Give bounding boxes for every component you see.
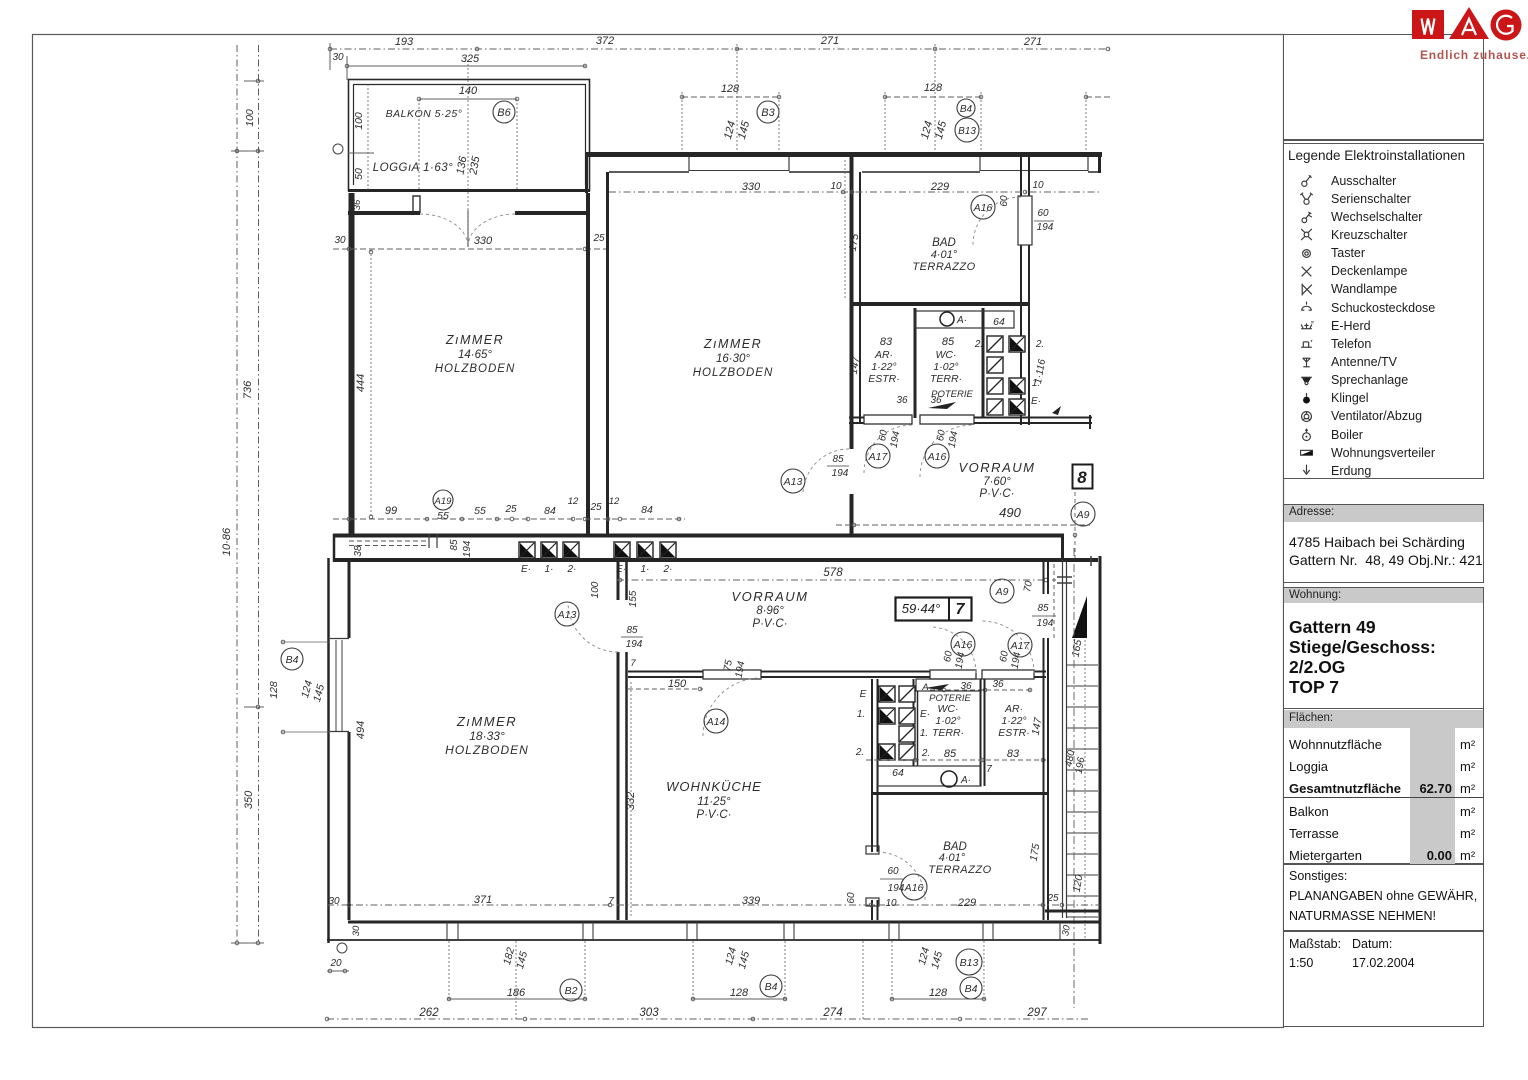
svg-text:229: 229 <box>930 181 949 193</box>
svg-text:150: 150 <box>668 678 687 690</box>
legend symbol Schuckosteckdose <box>1299 300 1314 315</box>
corner to stairwell <box>1061 534 1064 562</box>
svg-text:444: 444 <box>355 374 367 392</box>
Kueche / WC-Bad divider wall <box>871 679 873 852</box>
legend symbol Antenne/TV <box>1299 355 1314 370</box>
svg-text:59·44°: 59·44° <box>902 601 940 616</box>
legend symbol Sprechanlage <box>1299 373 1314 388</box>
circled label A17 upper <box>866 444 890 468</box>
svg-text:7: 7 <box>630 658 636 669</box>
svg-text:64: 64 <box>892 767 904 779</box>
circled label B4 bottom-b <box>960 977 982 999</box>
sonstiges box <box>1283 864 1484 931</box>
flaechen rows <box>1289 737 1382 752</box>
stair dim dotted line <box>1084 640 1086 940</box>
svg-text:494: 494 <box>355 721 367 739</box>
svg-text:100: 100 <box>353 112 365 130</box>
svg-text:12: 12 <box>568 496 579 507</box>
legend text Ausschalter <box>1331 174 1396 188</box>
svg-text:145: 145 <box>736 119 753 141</box>
balcony double-door swing arcs <box>420 214 515 247</box>
svg-text:B6: B6 <box>497 107 511 119</box>
electrical distribution squares upper column 2 <box>1009 336 1025 352</box>
top exterior wall <box>585 152 1102 157</box>
svg-text:194: 194 <box>1010 651 1024 670</box>
legend symbol Klingel <box>1299 391 1314 406</box>
electrical meter squares row group 1 <box>519 542 535 558</box>
lower apartment right wall <box>1043 558 1045 594</box>
tick y151 <box>231 150 264 152</box>
svg-text:WC·: WC· <box>936 349 957 361</box>
legend text Schuckosteckdose <box>1331 301 1435 315</box>
svg-text:120: 120 <box>1071 874 1086 893</box>
logo W red square <box>1412 10 1444 39</box>
svg-text:297: 297 <box>1026 1007 1047 1019</box>
svg-text:LOGGıA 1·63°: LOGGıA 1·63° <box>373 162 453 174</box>
svg-text:4·01°: 4·01° <box>931 249 958 261</box>
svg-text:70: 70 <box>1022 580 1035 593</box>
logo G red circle <box>1491 10 1522 41</box>
svg-text:165: 165 <box>1070 639 1085 658</box>
entrance door filled triangle <box>1072 596 1087 638</box>
svg-text:7: 7 <box>608 896 614 907</box>
lower apartment top wall <box>333 558 1064 562</box>
svg-text:7·60°: 7·60° <box>983 476 1011 488</box>
lower apartment bottom exterior wall <box>348 921 1100 924</box>
svg-text:TERRAZZO: TERRAZZO <box>912 261 975 273</box>
logo A red triangle <box>1449 7 1489 39</box>
circle mark bottom-left <box>337 943 347 953</box>
svg-text:194: 194 <box>888 883 905 894</box>
svg-text:AR·: AR· <box>1004 703 1023 715</box>
svg-text:Endlich zuhause.: Endlich zuhause. <box>1420 48 1528 62</box>
svg-text:4·01°: 4·01° <box>939 852 966 864</box>
legend text Erdung <box>1331 464 1371 478</box>
svg-text:E·: E· <box>920 709 930 720</box>
dimension line 578 <box>617 579 1056 581</box>
center line balcony door <box>467 64 469 246</box>
balcony-loggia outer walls <box>349 80 590 191</box>
svg-text:128: 128 <box>924 82 943 94</box>
svg-text:A16: A16 <box>927 451 947 463</box>
svg-text:A9: A9 <box>1076 509 1090 521</box>
svg-text:194: 194 <box>734 660 748 679</box>
window in left wall <box>330 638 349 640</box>
svg-text:194: 194 <box>1037 618 1054 629</box>
dimension stub top right <box>1086 96 1110 98</box>
svg-text:30: 30 <box>334 235 346 246</box>
svg-text:A13: A13 <box>557 609 577 621</box>
svg-text:194: 194 <box>1037 222 1054 233</box>
svg-text:ZıMMER: ZıMMER <box>445 333 504 347</box>
svg-text:E·: E· <box>1031 396 1041 407</box>
svg-text:194: 194 <box>947 430 961 449</box>
svg-text:186: 186 <box>507 987 526 999</box>
door arc A14 (into Wohnkueche) <box>703 678 761 736</box>
svg-text:193: 193 <box>395 36 414 48</box>
svg-text:60: 60 <box>999 195 1010 207</box>
svg-text:194: 194 <box>626 639 643 650</box>
circled label A9 left <box>990 579 1014 603</box>
svg-text:1·22°: 1·22° <box>871 361 896 373</box>
extension line x368 <box>367 84 369 191</box>
svg-text:11·25°: 11·25° <box>697 796 731 808</box>
legend symbol Serienschalter <box>1299 191 1314 206</box>
Zimmer1 top wall with balcony door opening <box>348 211 420 215</box>
svg-text:60: 60 <box>1037 208 1049 219</box>
svg-text:E: E <box>860 689 867 700</box>
svg-text:A·: A· <box>960 775 971 786</box>
extension line x419 <box>418 99 420 190</box>
svg-text:1·22°: 1·22° <box>1001 715 1026 727</box>
svg-text:2.: 2. <box>921 748 930 759</box>
legend symbol E-Herd <box>1299 318 1314 333</box>
svg-text:A17: A17 <box>1010 640 1031 652</box>
svg-text:10: 10 <box>1032 180 1044 191</box>
svg-text:325: 325 <box>461 53 480 65</box>
svg-text:8·96°: 8·96° <box>756 605 784 617</box>
stair treads <box>1067 664 1098 666</box>
circled label A16 (Bad door) <box>971 195 995 219</box>
left exterior wall (upper apartment) <box>349 193 355 537</box>
Bad door swing arc <box>973 197 1021 245</box>
svg-text:147: 147 <box>1030 716 1045 736</box>
svg-text:12: 12 <box>609 496 620 507</box>
window bay 1 in top wall <box>688 157 690 171</box>
legend text E-Herd <box>1331 319 1371 333</box>
extension line x516 <box>515 941 517 1020</box>
svg-text:60: 60 <box>846 892 857 904</box>
svg-text:TERR·: TERR· <box>932 727 964 739</box>
svg-text:83: 83 <box>880 336 893 348</box>
extension line x863 <box>862 941 864 1020</box>
wall between Zimmer1 and Zimmer2 (right line) <box>606 172 609 537</box>
svg-text:HOLZBODEN: HOLZBODEN <box>445 743 529 757</box>
svg-text:60: 60 <box>942 650 955 663</box>
svg-text:85: 85 <box>626 625 638 636</box>
dim line 128 bottom-a <box>691 998 787 1000</box>
wohnung bold text <box>1289 617 1436 697</box>
dimension line 330/229 below top wall <box>609 191 1100 193</box>
stairwell right wall <box>1099 556 1102 944</box>
extension lines bottom windows <box>448 941 450 1000</box>
circled label A16 upper <box>925 444 949 468</box>
svg-text:B2: B2 <box>565 985 578 997</box>
dimension line 128 right window <box>885 96 981 98</box>
entrance niche dashed line <box>1053 564 1055 640</box>
upper right exterior wall with Bad door opening <box>1020 157 1022 196</box>
svg-text:155: 155 <box>628 590 639 607</box>
circled label A16 mid <box>951 632 975 656</box>
svg-text:AR·: AR· <box>874 349 893 361</box>
svg-text:30: 30 <box>351 925 362 936</box>
legend text Wandlampe <box>1331 282 1397 296</box>
AR/WC divider wall upper <box>914 308 917 418</box>
svg-text:194: 194 <box>832 468 849 479</box>
legend symbol Wohnungsverteiler <box>1299 445 1314 460</box>
circled label B13 top <box>955 118 979 142</box>
svg-text:P·V·C·: P·V·C· <box>696 809 731 821</box>
WAG logo <box>1398 0 1528 70</box>
top wall inner line segments <box>609 171 689 173</box>
loggia left step bracket <box>413 196 420 213</box>
top wall right end corner <box>1098 152 1101 173</box>
arrow up near wall end <box>1052 406 1061 415</box>
left dimension line inner <box>258 45 260 943</box>
legend text Sprechanlage <box>1331 373 1408 387</box>
door center line <box>467 210 469 247</box>
svg-text:BAD: BAD <box>932 237 956 249</box>
svg-text:1.: 1. <box>920 728 928 739</box>
svg-text:371: 371 <box>474 894 492 906</box>
adresse box <box>1283 504 1484 583</box>
flaechen divider line <box>1283 797 1484 798</box>
unit number box 8 <box>1073 465 1093 489</box>
svg-text:10·86: 10·86 <box>221 527 233 556</box>
svg-text:145: 145 <box>933 119 950 141</box>
door jamb in bottom wall 2 <box>436 534 438 548</box>
svg-text:2.: 2. <box>855 747 864 758</box>
svg-text:P·V·C·: P·V·C· <box>752 618 787 630</box>
circled label A9 right <box>1071 502 1095 526</box>
legend text Klingel <box>1331 391 1369 405</box>
svg-text:ESTR·: ESTR· <box>868 373 900 385</box>
svg-text:145: 145 <box>514 950 530 970</box>
legend title <box>1288 148 1465 163</box>
extension line 332 <box>630 682 632 918</box>
legend symbol Deckenlampe <box>1299 264 1314 279</box>
dimension line 140 (balcony window) <box>419 98 517 100</box>
svg-text:A19: A19 <box>434 496 453 507</box>
svg-text:350: 350 <box>243 790 255 809</box>
stair top bracket marks <box>1057 576 1072 578</box>
legend symbol Wandlampe <box>1299 282 1314 297</box>
svg-text:B13: B13 <box>960 957 979 969</box>
svg-text:1·: 1· <box>641 564 650 575</box>
stairwell bottom wall <box>1045 910 1100 913</box>
circled label B3 <box>757 101 779 123</box>
extension line x935 <box>934 44 936 153</box>
legend text Taster <box>1331 246 1365 260</box>
svg-text:8: 8 <box>1077 468 1087 487</box>
svg-text:85: 85 <box>1037 603 1049 614</box>
svg-text:36: 36 <box>992 679 1004 690</box>
extension line x1086 <box>1085 92 1087 153</box>
svg-text:ESTR·: ESTR· <box>998 727 1030 739</box>
svg-text:736: 736 <box>242 380 254 399</box>
Zimmer3 right wall / Vorraum left wall <box>617 562 620 600</box>
window bay 2 in top wall <box>979 157 981 171</box>
masstab box <box>1283 931 1484 1027</box>
svg-text:m: m <box>1311 320 1314 325</box>
apartment number box 59.44 / 7 <box>896 597 972 621</box>
svg-text:A17: A17 <box>868 451 889 463</box>
svg-text:271: 271 <box>820 35 839 47</box>
dashed wall stub left of bottom wall <box>349 540 428 542</box>
door arc A17 upper <box>864 425 912 473</box>
electrical distribution squares upper column 1 <box>987 336 1003 352</box>
legend text Antenne/TV <box>1331 355 1397 369</box>
legend text Wechselschalter <box>1331 210 1422 224</box>
wall corner at balcony right <box>585 152 588 193</box>
svg-text:271: 271 <box>1023 36 1042 48</box>
adresse text <box>1289 534 1465 550</box>
svg-text:P·V·C·: P·V·C· <box>979 488 1014 500</box>
svg-text:7: 7 <box>956 601 966 618</box>
svg-text:145: 145 <box>736 950 752 970</box>
svg-text:A13: A13 <box>783 476 803 488</box>
svg-text:36: 36 <box>896 395 908 406</box>
svg-text:WC·: WC· <box>938 703 959 715</box>
tick y943 <box>231 942 264 944</box>
svg-text:1·116: 1·116 <box>1033 358 1048 385</box>
drawing sheet frame <box>33 35 1284 1028</box>
svg-text:85: 85 <box>449 539 460 551</box>
bottom wall window brackets <box>446 922 448 940</box>
svg-text:196: 196 <box>1074 756 1088 775</box>
svg-text:TERRAZZO: TERRAZZO <box>928 864 991 876</box>
balkon/loggia divider tick line <box>348 152 374 154</box>
wohnung gray header <box>1284 588 1483 603</box>
legend symbol Kreuzschalter <box>1299 227 1314 242</box>
extension line x885 <box>884 92 886 153</box>
middle dimension line 99/55/55/25/84 <box>333 518 685 520</box>
door jamb in bottom wall <box>428 534 430 548</box>
svg-text:85: 85 <box>942 336 955 348</box>
svg-text:262: 262 <box>418 1007 439 1019</box>
svg-text:274: 274 <box>822 1007 842 1019</box>
svg-text:60: 60 <box>887 866 899 877</box>
svg-text:VORRAUM: VORRAUM <box>732 589 809 604</box>
svg-text:WOHNKÜCHE: WOHNKÜCHE <box>666 779 762 794</box>
dim line 150 <box>628 688 703 690</box>
dimension line top 193/372/271/271 <box>330 48 1110 50</box>
shelf with circle (lower) <box>878 766 981 786</box>
circled label A13 upper <box>781 469 805 493</box>
circled label A17 mid <box>1008 633 1032 657</box>
lowest dimension line 262/303/274/297 <box>327 1018 1090 1020</box>
svg-text:1·02°: 1·02° <box>935 715 960 727</box>
circled label B4 bottom-a <box>760 975 782 997</box>
legend symbol Ventilator/Abzug <box>1299 409 1314 424</box>
legend symbol Telefon <box>1299 336 1314 351</box>
door arc A16 upper <box>920 425 972 477</box>
svg-text:83: 83 <box>1007 748 1020 760</box>
extension line x330 <box>329 43 331 70</box>
svg-text:2.: 2. <box>974 339 983 350</box>
circled label B4 top <box>957 99 975 117</box>
circled label B2 <box>560 979 582 1001</box>
electrical meter squares row group 2 <box>614 542 630 558</box>
svg-text:99: 99 <box>385 505 397 517</box>
dim line 490 <box>836 524 1090 526</box>
legend symbol Ausschalter <box>1299 173 1314 188</box>
dim line 186 <box>447 998 587 1000</box>
svg-text:E·: E· <box>521 564 531 575</box>
Bad top wall (lower) <box>872 792 1048 795</box>
electrical squares lower col1 <box>879 686 895 702</box>
circled label A14 <box>704 709 728 733</box>
extension line x779 <box>778 92 780 153</box>
svg-text:HOLZBODEN: HOLZBODEN <box>693 367 774 379</box>
legend box top double line <box>1283 140 1484 141</box>
circled label A16 lower <box>901 874 927 900</box>
left dimension line outer (10.86) <box>236 45 238 943</box>
upper WC block bottom wall with door sills <box>849 417 864 419</box>
svg-text:A16: A16 <box>973 202 993 214</box>
svg-text:303: 303 <box>639 1007 659 1019</box>
flaechen gray value column <box>1410 728 1455 864</box>
svg-text:100: 100 <box>590 581 601 598</box>
Bad / WC divider wall (upper) <box>852 302 1030 306</box>
small arrow marker near WC upper <box>928 402 956 409</box>
svg-text:330: 330 <box>474 235 493 247</box>
adresse gray header <box>1284 505 1483 522</box>
wohnung box <box>1283 587 1484 710</box>
dimension line 325 <box>347 65 586 67</box>
svg-text:145: 145 <box>929 950 945 970</box>
circled label B13 bottom <box>956 949 982 975</box>
svg-text:10: 10 <box>830 181 842 192</box>
extension line bad height <box>844 160 846 300</box>
legend symbol Boiler <box>1299 427 1314 442</box>
svg-text:1·: 1· <box>545 564 554 575</box>
dim line 444 (Zimmer1 height) <box>370 250 372 519</box>
svg-text:B13: B13 <box>958 126 976 137</box>
svg-text:100: 100 <box>244 109 256 127</box>
svg-text:2.: 2. <box>1035 339 1044 350</box>
svg-text:60: 60 <box>998 650 1011 663</box>
stair top wall segment <box>1064 558 1098 562</box>
WC walls lower <box>913 679 915 766</box>
stair center dash-dot line <box>1073 548 1075 1008</box>
Vorraum / Wohnkueche divider wall <box>628 671 703 673</box>
svg-text:55: 55 <box>437 510 449 522</box>
svg-text:B4: B4 <box>765 981 778 993</box>
svg-text:30: 30 <box>332 52 344 63</box>
extension dashed x1075 <box>1074 492 1076 560</box>
dim line 36/36 <box>930 689 1034 691</box>
svg-text:84: 84 <box>641 504 653 516</box>
svg-text:B4: B4 <box>965 983 978 995</box>
svg-text:85: 85 <box>944 748 957 760</box>
svg-text:194: 194 <box>954 651 968 670</box>
dim line 128 bottom-b <box>890 998 986 1000</box>
svg-text:2·: 2· <box>663 564 673 575</box>
svg-text:25: 25 <box>589 502 602 513</box>
svg-text:A14: A14 <box>706 716 726 728</box>
legend symbol Wechselschalter <box>1299 209 1314 224</box>
svg-text:16·30°: 16·30° <box>716 353 750 365</box>
svg-text:2·: 2· <box>567 564 577 575</box>
svg-text:194: 194 <box>462 540 473 557</box>
svg-text:372: 372 <box>596 35 614 47</box>
legend symbol Erdung <box>1299 463 1314 478</box>
door arc A17 lower-mid <box>982 621 1034 673</box>
extension line x517 <box>516 99 518 190</box>
svg-text:B4: B4 <box>960 104 973 115</box>
stub at right end of WC wall <box>1089 415 1091 429</box>
svg-text:194: 194 <box>889 430 903 449</box>
svg-text:14·65°: 14·65° <box>458 349 492 361</box>
svg-text:A16: A16 <box>904 882 924 894</box>
extension line x682 <box>681 92 683 153</box>
legend symbol Taster <box>1299 246 1314 261</box>
tick y707 <box>244 706 264 708</box>
svg-text:10: 10 <box>885 898 897 909</box>
svg-text:HOLZBODEN: HOLZBODEN <box>435 363 516 375</box>
stairwell rails <box>1062 560 1064 918</box>
